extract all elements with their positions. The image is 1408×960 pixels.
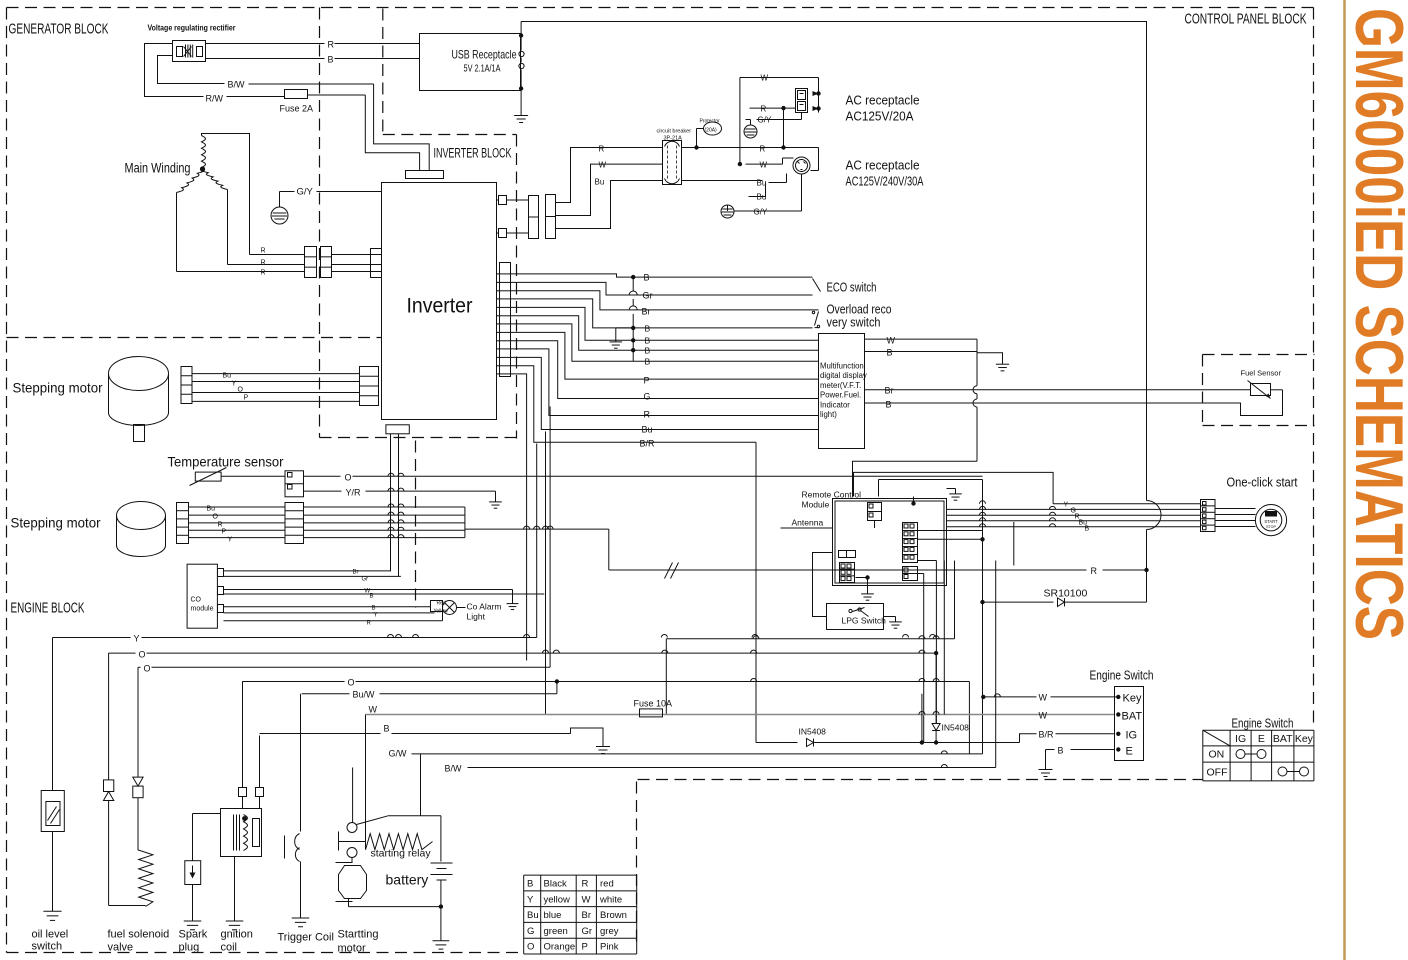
svg-text:G/W: G/W — [389, 749, 408, 759]
svg-text:yellow: yellow — [544, 894, 571, 905]
svg-text:oil level: oil level — [32, 929, 69, 941]
svg-text:Light: Light — [467, 612, 486, 622]
svg-text:O: O — [144, 664, 151, 674]
svg-text:Yellow: Yellow — [434, 609, 449, 615]
svg-text:meter(V.F.T.: meter(V.F.T. — [820, 381, 861, 390]
svg-text:B: B — [645, 357, 651, 367]
svg-text:START: START — [1264, 519, 1278, 524]
svg-text:grey: grey — [600, 926, 619, 937]
svg-text:B: B — [886, 400, 892, 410]
svg-text:OFF: OFF — [1207, 767, 1228, 779]
svg-text:motor: motor — [338, 943, 366, 955]
svg-text:Engine Switch: Engine Switch — [1232, 716, 1294, 731]
svg-text:Inverter: Inverter — [407, 295, 473, 318]
svg-text:G/Y: G/Y — [754, 208, 768, 217]
svg-text:Bu/W: Bu/W — [353, 690, 376, 700]
svg-text:B: B — [372, 606, 376, 612]
svg-text:Stepping motor: Stepping motor — [11, 515, 101, 531]
svg-text:Bu: Bu — [595, 178, 605, 187]
svg-text:B: B — [328, 55, 334, 65]
svg-text:IN5408: IN5408 — [799, 727, 827, 737]
svg-text:B: B — [644, 273, 650, 283]
svg-text:P: P — [244, 395, 249, 402]
svg-text:O: O — [527, 942, 534, 953]
svg-text:W: W — [761, 74, 769, 83]
svg-text:GM6000iED SCHEMATICS: GM6000iED SCHEMATICS — [1341, 8, 1408, 640]
svg-text:circuit breaker: circuit breaker — [657, 129, 692, 135]
svg-text:W: W — [760, 161, 768, 170]
svg-text:R: R — [218, 522, 223, 529]
svg-text:IG: IG — [1235, 733, 1246, 745]
svg-text:plug: plug — [179, 942, 200, 954]
svg-text:red: red — [600, 879, 614, 890]
svg-text:E: E — [1126, 746, 1133, 758]
svg-text:Startting: Startting — [338, 929, 379, 941]
svg-text:LPG Switch: LPG Switch — [842, 616, 887, 626]
svg-text:O: O — [139, 650, 146, 660]
svg-text:Module: Module — [802, 500, 830, 510]
svg-text:B: B — [887, 348, 893, 358]
svg-text:gnition: gnition — [221, 929, 253, 941]
svg-text:Gr: Gr — [643, 291, 653, 301]
svg-text:B: B — [370, 594, 374, 600]
svg-text:W: W — [1039, 711, 1048, 721]
svg-text:SR10100: SR10100 — [1044, 588, 1088, 600]
svg-text:ENGINE BLOCK: ENGINE BLOCK — [11, 601, 85, 617]
svg-text:Power.Fuel.: Power.Fuel. — [820, 391, 861, 400]
svg-text:B/R: B/R — [1039, 730, 1055, 740]
svg-text:CONTROL PANEL BLOCK: CONTROL PANEL BLOCK — [1185, 12, 1307, 28]
svg-text:Antenna: Antenna — [792, 518, 824, 528]
svg-text:INVERTER BLOCK: INVERTER BLOCK — [434, 146, 512, 161]
svg-text:W: W — [887, 336, 896, 346]
svg-text:R: R — [599, 145, 605, 154]
svg-text:R: R — [367, 621, 372, 627]
svg-text:Gr: Gr — [582, 926, 593, 937]
svg-text:O: O — [213, 514, 219, 521]
svg-text:B: B — [645, 346, 651, 356]
svg-text:Engine Switch: Engine Switch — [1090, 668, 1154, 683]
svg-text:R: R — [261, 270, 266, 277]
svg-text:Y: Y — [1064, 502, 1069, 509]
svg-text:ECO switch: ECO switch — [827, 280, 877, 295]
svg-text:R: R — [761, 105, 767, 114]
svg-text:BAT: BAT — [1273, 733, 1293, 745]
svg-text:Voltage regulating rectifier: Voltage regulating rectifier — [148, 23, 237, 33]
svg-text:Indicator: Indicator — [820, 400, 850, 409]
svg-text:blue: blue — [544, 910, 562, 921]
svg-text:Brown: Brown — [600, 910, 627, 921]
svg-text:B/R: B/R — [640, 439, 656, 449]
svg-text:B/W: B/W — [228, 80, 246, 90]
svg-text:Main Winding: Main Winding — [125, 160, 191, 176]
svg-text:Fuel Sensor: Fuel Sensor — [1241, 369, 1282, 378]
svg-text:Multifunction: Multifunction — [820, 362, 864, 371]
svg-text:P: P — [582, 942, 588, 953]
svg-text:Bu: Bu — [223, 373, 232, 380]
svg-text:Y: Y — [374, 613, 378, 619]
svg-text:Br: Br — [885, 386, 894, 396]
svg-text:O: O — [238, 387, 244, 394]
svg-text:Key: Key — [1123, 693, 1142, 705]
svg-text:ON: ON — [1209, 749, 1225, 761]
svg-text:Br: Br — [582, 910, 592, 921]
svg-text:CO: CO — [191, 597, 202, 604]
svg-text:B: B — [1085, 526, 1090, 533]
svg-text:switch: switch — [32, 941, 63, 953]
svg-text:Spark: Spark — [179, 929, 208, 941]
svg-text:light): light) — [820, 410, 837, 419]
svg-text:W: W — [369, 705, 378, 715]
svg-text:AC receptacle: AC receptacle — [846, 158, 920, 173]
svg-text:Bu: Bu — [527, 910, 539, 921]
svg-text:G/Y: G/Y — [297, 187, 314, 198]
svg-text:5V 2.1A/1A: 5V 2.1A/1A — [464, 63, 501, 75]
svg-text:Temperature sensor: Temperature sensor — [168, 454, 284, 470]
svg-text:Gr: Gr — [362, 577, 369, 583]
svg-text:B: B — [645, 336, 651, 346]
svg-text:B/W: B/W — [445, 764, 463, 774]
svg-text:P: P — [222, 529, 227, 536]
svg-text:W: W — [1039, 693, 1048, 703]
svg-text:Key: Key — [1295, 733, 1314, 745]
svg-text:Bu: Bu — [757, 179, 767, 188]
svg-text:R: R — [261, 248, 266, 255]
svg-text:Trigger Coil: Trigger Coil — [278, 932, 334, 944]
svg-text:battery: battery — [386, 872, 429, 888]
svg-text:R: R — [644, 410, 651, 420]
svg-text:AC125V/240V/30A: AC125V/240V/30A — [846, 174, 924, 189]
svg-text:W: W — [599, 161, 607, 170]
svg-text:R: R — [261, 260, 266, 267]
svg-text:Y: Y — [232, 381, 237, 388]
svg-text:Y: Y — [527, 894, 534, 905]
svg-text:AC125V/20A: AC125V/20A — [846, 109, 914, 124]
svg-text:Orange: Orange — [544, 942, 576, 953]
svg-text:STOP: STOP — [1266, 525, 1276, 529]
svg-text:GENERATOR BLOCK: GENERATOR BLOCK — [9, 22, 109, 38]
svg-text:R/W: R/W — [206, 94, 224, 104]
svg-text:Br: Br — [642, 307, 651, 317]
svg-text:W: W — [582, 894, 591, 905]
svg-text:Protector: Protector — [700, 119, 721, 125]
svg-text:Fuse 10A: Fuse 10A — [634, 699, 673, 709]
svg-text:B: B — [1058, 746, 1064, 756]
svg-text:BAT: BAT — [1122, 711, 1143, 723]
svg-text:R: R — [582, 879, 589, 890]
svg-text:digital display: digital display — [820, 371, 867, 380]
svg-text:Bu: Bu — [642, 425, 653, 435]
svg-text:Stepping motor: Stepping motor — [13, 380, 103, 396]
svg-text:Bu: Bu — [207, 506, 216, 513]
svg-text:R: R — [760, 145, 766, 154]
svg-text:B: B — [384, 724, 390, 734]
svg-text:very switch: very switch — [827, 315, 881, 330]
svg-text:B: B — [645, 324, 651, 334]
svg-text:R: R — [1091, 566, 1098, 576]
svg-text:Y/R: Y/R — [346, 488, 362, 498]
svg-text:O: O — [345, 473, 352, 483]
svg-text:IN5408: IN5408 — [942, 723, 970, 733]
svg-text:O: O — [348, 678, 355, 688]
svg-text:Pink: Pink — [600, 942, 619, 953]
svg-text:USB Receptacle: USB Receptacle — [452, 48, 517, 62]
svg-text:module: module — [191, 606, 214, 613]
svg-text:Y: Y — [134, 634, 140, 644]
svg-text:(20A): (20A) — [705, 128, 718, 134]
svg-text:G: G — [644, 392, 651, 402]
svg-text:valve: valve — [108, 942, 134, 954]
svg-text:Y: Y — [228, 537, 233, 544]
svg-text:Co Alarm: Co Alarm — [467, 602, 502, 612]
svg-text:B: B — [527, 879, 533, 890]
svg-text:Black: Black — [544, 879, 567, 890]
svg-text:E: E — [1258, 733, 1265, 745]
svg-text:P: P — [644, 376, 650, 386]
svg-text:One-click start: One-click start — [1227, 475, 1298, 490]
svg-text:AC receptacle: AC receptacle — [846, 93, 920, 108]
svg-text:IG: IG — [1126, 730, 1138, 742]
svg-text:white: white — [599, 894, 622, 905]
svg-text:R: R — [328, 40, 335, 50]
svg-text:coil: coil — [221, 942, 238, 954]
svg-text:green: green — [544, 926, 568, 937]
svg-text:Red: Red — [437, 601, 446, 607]
svg-text:G: G — [527, 926, 534, 937]
svg-text:fuel solenoid: fuel solenoid — [108, 929, 170, 941]
svg-text:Br: Br — [353, 570, 359, 576]
svg-text:Fuse 2A: Fuse 2A — [280, 104, 314, 114]
